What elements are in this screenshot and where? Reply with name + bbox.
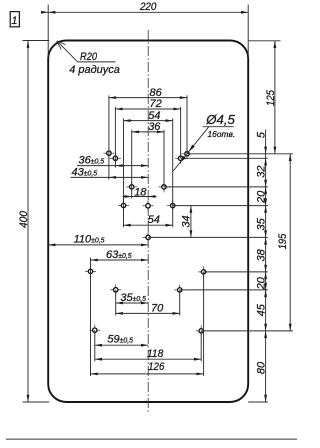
ext row G right <box>180 289 268 291</box>
hole A1 Ø4,5 <box>103 152 114 154</box>
dim 118 arrow right <box>194 358 201 361</box>
dim 70 arrow right <box>173 312 180 315</box>
hole D2 Ø4,5 <box>143 205 154 207</box>
svg-text:54: 54 <box>148 214 160 226</box>
svg-text:1: 1 <box>11 15 17 27</box>
dim 63±0,5 line <box>91 259 149 261</box>
dim 59±0,5 arrow right <box>141 344 148 347</box>
ext top edge right (125) <box>248 40 280 42</box>
svg-text:125: 125 <box>265 89 277 106</box>
svg-text:34: 34 <box>180 215 192 227</box>
dim 195 arrow top <box>289 154 292 161</box>
svg-text:Ø4,5: Ø4,5 <box>205 112 235 127</box>
dim 34 arrow bottom <box>190 230 193 237</box>
svg-text:86: 86 <box>150 87 163 99</box>
dim 125 arrow bottom <box>274 147 277 154</box>
ext top edge left (400) <box>23 40 50 42</box>
dim 36 arrow left <box>132 131 139 134</box>
dim 400 line <box>27 41 29 403</box>
ext col C1 <box>131 130 133 199</box>
ext col F1 <box>90 258 92 376</box>
chain arrow 5 top <box>264 147 267 154</box>
ext col B1 <box>114 107 116 168</box>
hole callout leader <box>173 127 209 171</box>
svg-text:35: 35 <box>255 217 267 230</box>
dim 54b line <box>124 224 173 226</box>
dim 72 arrow left <box>115 108 122 111</box>
dim 220 arrow right <box>241 11 248 14</box>
dim 34 line <box>190 206 192 238</box>
svg-text:16отв.: 16отв. <box>208 129 236 139</box>
hole G2 Ø4,5 <box>174 289 185 291</box>
dim 72 line <box>115 108 180 110</box>
svg-text:126: 126 <box>148 361 165 373</box>
dim 110±0,5 line <box>48 244 148 246</box>
chain bowtie arrows y330.9 <box>264 324 267 331</box>
ext col D1 <box>123 118 125 227</box>
dim 118 line <box>95 358 201 360</box>
hole callout arrow at hole A2 <box>189 145 195 152</box>
hole D1 Ø4,5 <box>118 205 129 207</box>
dim 70 arrow left <box>116 312 123 315</box>
hole callout shelf <box>203 126 234 128</box>
dim 43±0,5 line <box>71 176 149 178</box>
svg-text:54: 54 <box>148 110 160 122</box>
hole H1 Ø4,5 <box>89 329 100 331</box>
dim 54 arrow left <box>124 119 131 122</box>
dim 126 arrow right <box>196 373 203 376</box>
ext col D3 <box>172 118 174 227</box>
bottom sheet line <box>6 438 297 440</box>
svg-text:20: 20 <box>255 276 267 290</box>
hole C1 Ø4,5 <box>126 186 137 188</box>
dim 43±0,5 arrow right <box>141 176 148 179</box>
dim 72 arrow right <box>173 108 180 111</box>
balloon item 1 box <box>10 12 19 27</box>
dim 59±0,5 arrow left <box>95 344 102 347</box>
dim 195 arrow bottom <box>289 324 292 331</box>
svg-text:36: 36 <box>148 121 161 133</box>
chain bowtie arrows y289.9 <box>264 283 267 290</box>
dim 35±0,5 arrow right <box>141 302 148 305</box>
ext row F right <box>204 271 268 273</box>
hole A2 Ø4,5 <box>182 153 193 155</box>
dim 400 arrow top <box>27 41 30 48</box>
dim 86 arrow left <box>109 96 116 99</box>
chain bowtie arrows y186.9 <box>264 180 267 187</box>
ext col H2 <box>200 331 202 361</box>
ext row B right <box>181 157 268 159</box>
dim 36 line <box>132 131 164 133</box>
dim 34 arrow top <box>190 206 193 213</box>
ext col A1 <box>108 95 110 179</box>
dim 118 arrow left <box>95 358 102 361</box>
ext bottom edge left (400) <box>23 401 50 403</box>
dim 126 line <box>91 373 204 375</box>
hole F1 Ø4,5 <box>85 270 96 272</box>
dim 125 line <box>274 41 276 154</box>
dim 18 line <box>123 196 157 198</box>
svg-text:18: 18 <box>134 187 147 199</box>
dim 400 arrow bottom <box>27 395 30 402</box>
svg-text:45: 45 <box>255 303 267 316</box>
ext col F2 <box>203 272 205 376</box>
svg-text:R20: R20 <box>80 51 98 63</box>
svg-text:195: 195 <box>277 233 289 249</box>
dim 86 line <box>109 97 187 99</box>
hole B1 Ø4,5 <box>110 157 121 159</box>
ext col G2 <box>179 290 181 316</box>
hole B2 Ø4,5 <box>175 157 186 159</box>
R20 leader <box>58 42 77 62</box>
chain bowtie arrows y237.4 <box>264 230 267 237</box>
dim 126 arrow left <box>91 373 98 376</box>
dim 220 arrow left <box>48 11 55 14</box>
chain bowtie arrows y205.6 <box>264 198 267 205</box>
dim 54b arrow left <box>124 224 131 227</box>
dim 18 arrow left <box>125 195 132 198</box>
vertical centerline axis <box>147 30 149 414</box>
dim 35±0,5 line <box>116 302 149 304</box>
svg-text:5: 5 <box>255 131 267 138</box>
ext row E right <box>148 236 268 238</box>
dim 59±0,5 line <box>95 344 148 346</box>
dim 110±0,5 arrow left <box>48 244 55 247</box>
svg-text:38: 38 <box>255 248 267 261</box>
R20 leader open arrow <box>57 41 66 45</box>
chain dim line right <box>265 130 267 403</box>
svg-text:118: 118 <box>147 348 164 360</box>
svg-text:72: 72 <box>150 98 162 110</box>
dim 36±0,5 arrow left <box>115 164 122 167</box>
ext col A2 <box>186 95 188 153</box>
dim 54 line <box>124 120 173 122</box>
svg-text:20: 20 <box>255 190 267 204</box>
dim 18 arrow right <box>148 195 155 198</box>
ext bottom edge right (80) <box>248 401 268 403</box>
plate outline 220x400 R20 <box>48 41 248 403</box>
svg-text:70: 70 <box>151 302 164 314</box>
balloon leader arrow <box>41 11 48 14</box>
ext row C right <box>164 186 268 188</box>
ext row A right <box>187 153 293 155</box>
dim 63±0,5 arrow right <box>141 259 148 262</box>
dim 86 arrow right <box>180 96 187 99</box>
dim 195 line <box>289 154 291 331</box>
hole G1 Ø4,5 <box>110 289 121 291</box>
hole D3 Ø4,5 <box>167 205 178 207</box>
svg-text:4 радиуса: 4 радиуса <box>69 64 120 76</box>
chain bowtie arrows y271.9 <box>264 265 267 272</box>
dim 63±0,5 arrow left <box>91 259 98 262</box>
ext row H right <box>201 330 293 332</box>
svg-text:400: 400 <box>18 210 30 228</box>
dim 54 arrow right <box>166 119 173 122</box>
ext col C2 <box>163 130 165 187</box>
svg-text:220: 220 <box>139 1 157 13</box>
dim 36±0,5 arrow right <box>141 164 148 167</box>
dim 54b arrow right <box>166 224 173 227</box>
svg-text:80: 80 <box>255 361 267 374</box>
hole callout arrow at hole B2 <box>180 156 186 163</box>
dim 220 line <box>41 11 248 13</box>
ext col G1 <box>115 290 117 316</box>
hole H2 Ø4,5 <box>196 330 207 332</box>
dim 110±0,5 arrow right <box>141 244 148 247</box>
dim 36 arrow right <box>157 131 164 134</box>
hole F2 Ø4,5 <box>198 271 209 273</box>
dim 36±0,5 line <box>77 165 148 167</box>
dim 35±0,5 arrow left <box>116 302 123 305</box>
ext right edge top (220) <box>247 5 249 59</box>
dim 125 arrow top <box>274 41 277 48</box>
ext left edge top (220) <box>47 5 49 59</box>
ext row D right <box>173 205 268 207</box>
chain arrow bottom 80 <box>264 395 267 402</box>
dim 43±0,5 arrow left <box>109 176 116 179</box>
dim 70 line <box>116 312 180 314</box>
hole C2 Ø4,5 <box>159 186 170 188</box>
hole E1 Ø4,5 <box>143 236 154 238</box>
ext col H1 <box>94 330 96 361</box>
chain arrow 5 bottom <box>264 158 267 165</box>
ext col B2 <box>180 107 182 158</box>
svg-text:32: 32 <box>255 165 267 177</box>
